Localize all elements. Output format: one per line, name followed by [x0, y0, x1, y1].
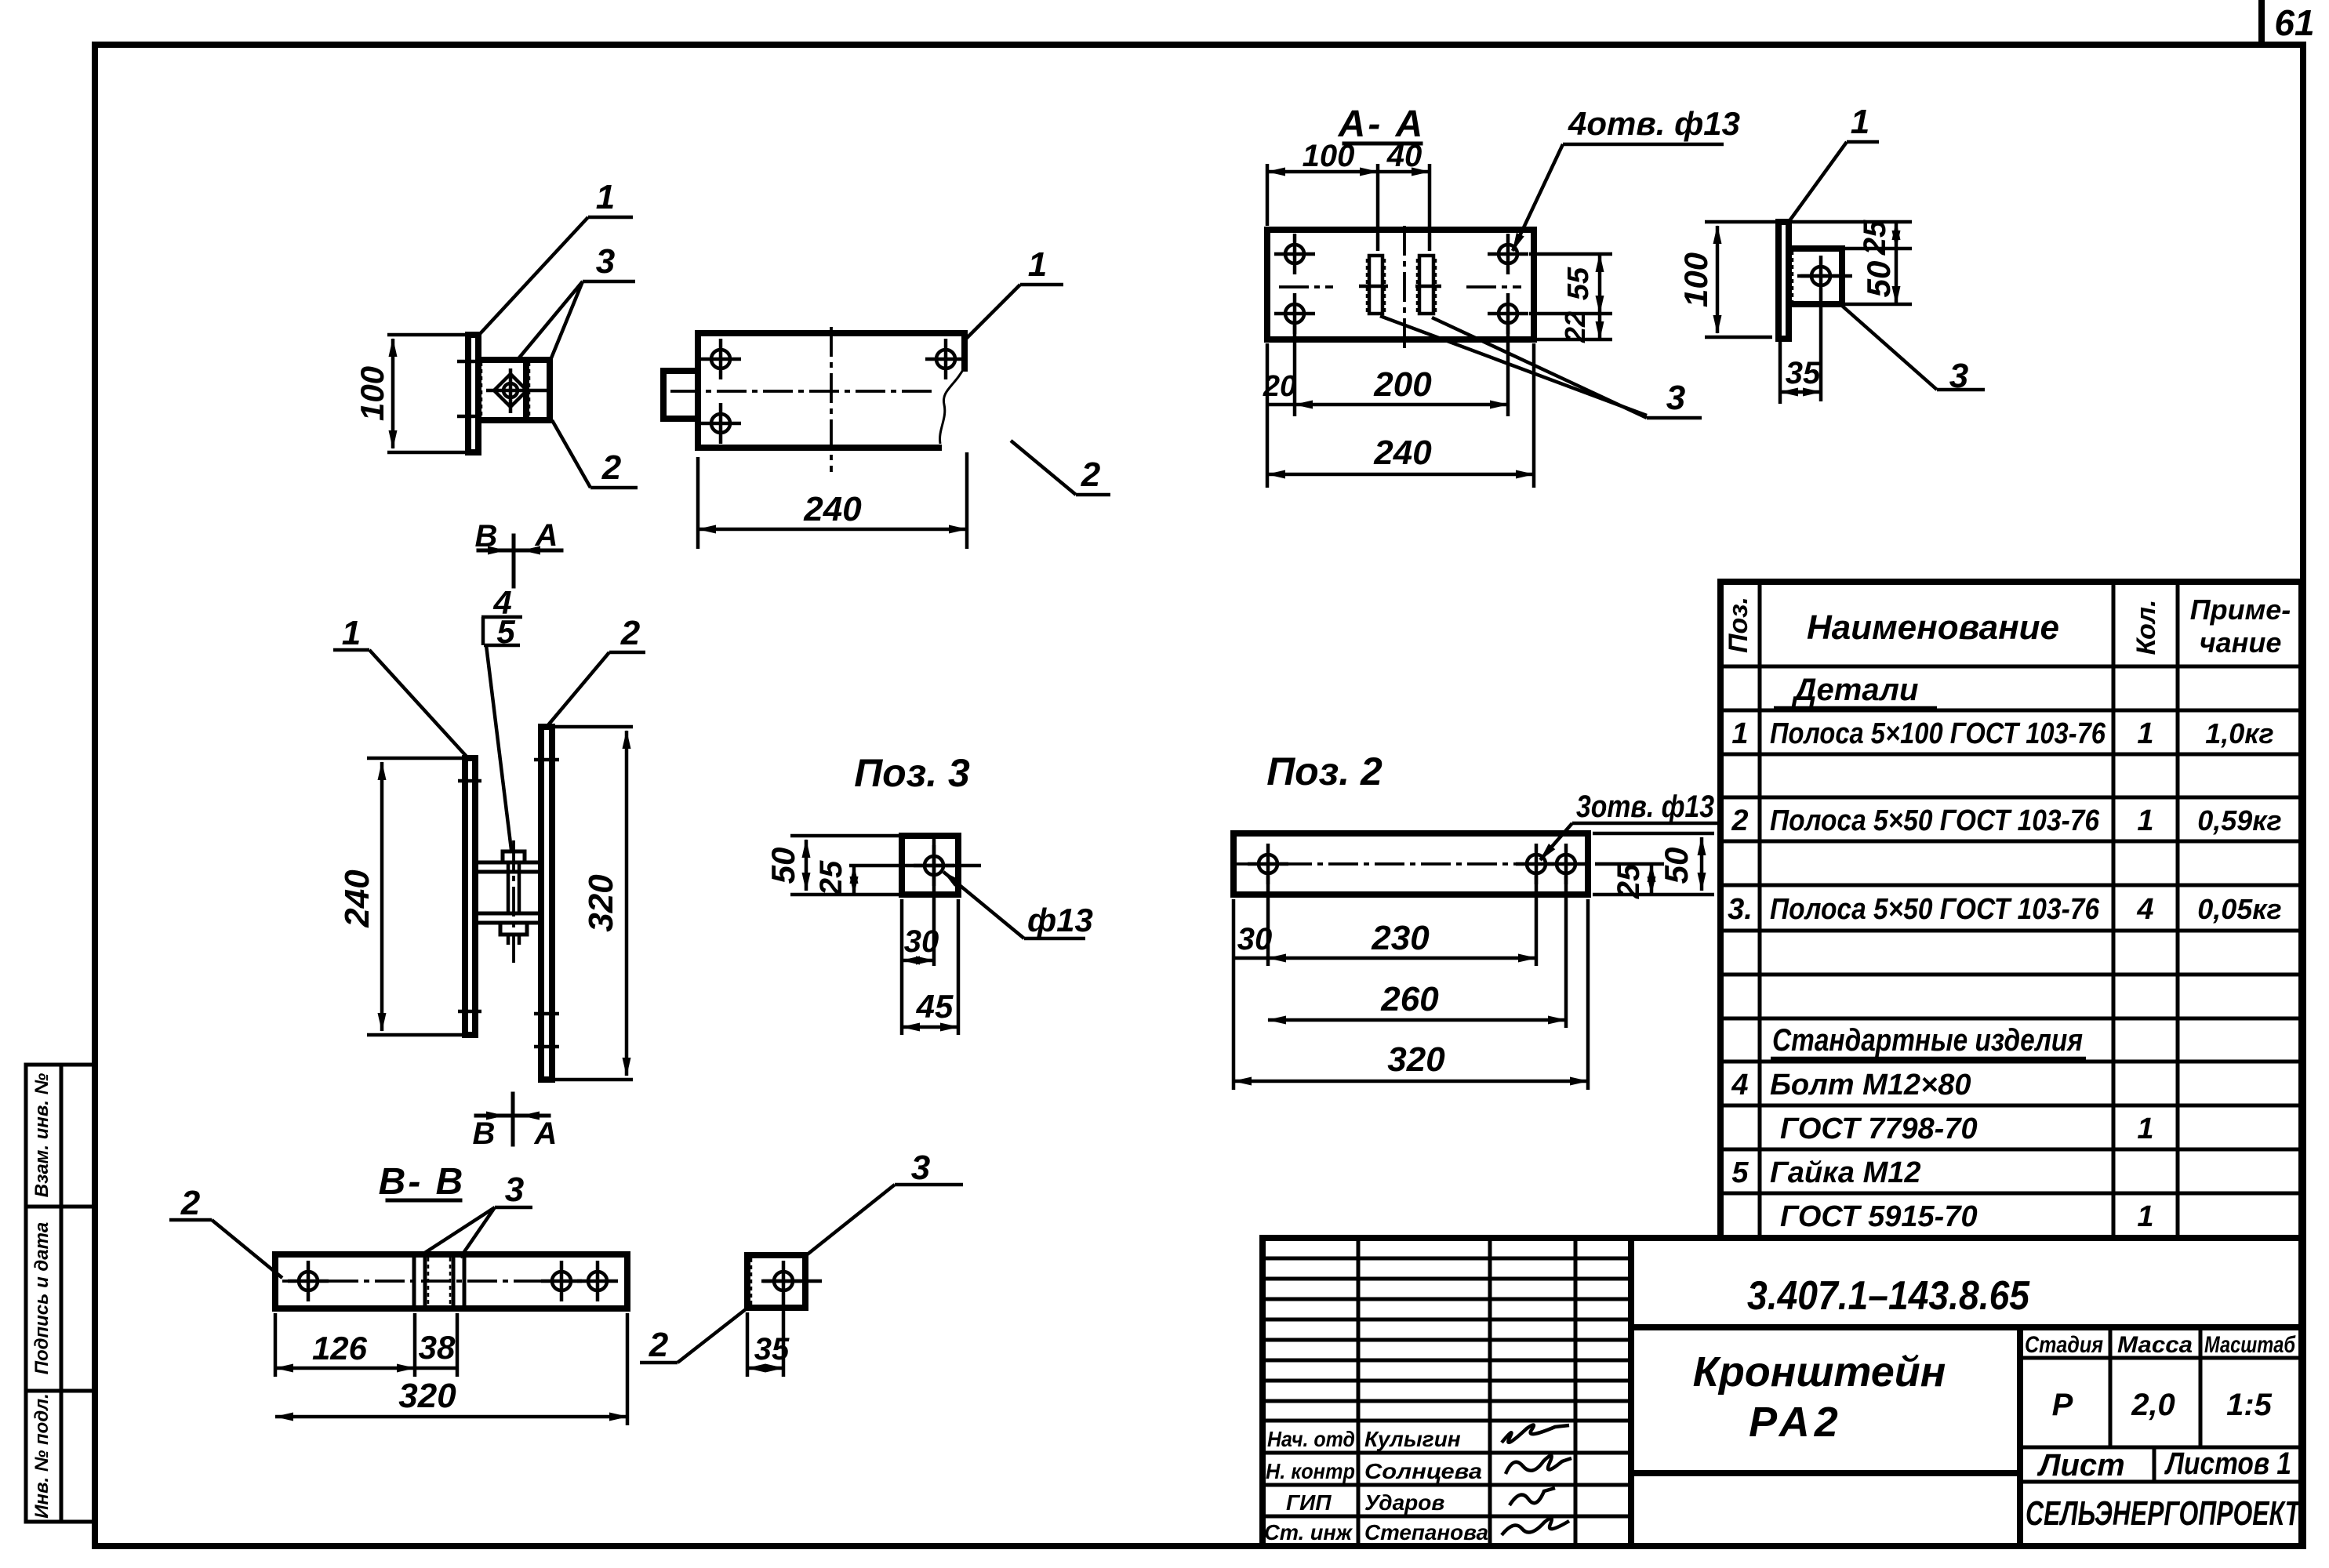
svg-text:Масса: Масса [2117, 1332, 2193, 1358]
svg-text:50: 50 [765, 848, 801, 884]
bottom dims [1232, 899, 1236, 1090]
svg-text:1: 1 [1028, 245, 1047, 284]
top dims [1266, 164, 1270, 226]
svg-text:50: 50 [1658, 848, 1695, 884]
svg-text:22: 22 [1559, 311, 1591, 343]
svg-text:126: 126 [312, 1330, 368, 1367]
svg-text:Стадия: Стадия [2025, 1332, 2103, 1358]
svg-text:4отв. ф13: 4отв. ф13 [1568, 105, 1740, 142]
svg-text:Стандартные изделия: Стандартные изделия [1772, 1023, 2083, 1058]
dims 25 50 [1792, 220, 1912, 224]
dim 35 [746, 1312, 750, 1377]
centerlines [670, 390, 937, 393]
svg-text:Кол.: Кол. [2131, 600, 2161, 655]
svg-text:Поз. 3: Поз. 3 [854, 751, 970, 795]
svg-text:25: 25 [814, 860, 848, 896]
svg-text:200: 200 [1373, 365, 1432, 404]
svg-text:2: 2 [1731, 804, 1748, 837]
spacer strips [475, 862, 542, 872]
svg-text:35: 35 [1786, 356, 1821, 390]
svg-text:Приме-: Приме- [2190, 593, 2291, 626]
bolt head protrusion [663, 371, 698, 419]
name box [2017, 1327, 2023, 1546]
svg-text:1: 1 [2137, 717, 2153, 750]
svg-text:В: В [475, 519, 498, 554]
svg-text:В- В: В- В [379, 1161, 466, 1203]
svg-text:СЕЛЬЭНЕРГОПРОЕКТ: СЕЛЬЭНЕРГОПРОЕКТ [2026, 1494, 2302, 1533]
svg-text:3: 3 [596, 242, 615, 281]
svg-text:ГОСТ 7798-70: ГОСТ 7798-70 [1780, 1112, 1978, 1145]
svg-text:РА2: РА2 [1749, 1399, 1843, 1446]
dim 100 line [391, 339, 395, 448]
svg-text:А: А [534, 1116, 558, 1151]
bracket square [1789, 249, 1842, 304]
sheet row [2020, 1480, 2302, 1484]
svg-text:5: 5 [1731, 1156, 1749, 1189]
svg-text:ф13: ф13 [1027, 902, 1093, 938]
svg-text:2: 2 [649, 1326, 669, 1364]
slots (pos 3 strips in section) [1369, 256, 1383, 314]
stage/mass/scale [2020, 1356, 2302, 1360]
bottom dims 20 200 240 [1293, 323, 1297, 416]
svg-text:320: 320 [1387, 1040, 1445, 1079]
left signature grid [1357, 1238, 1361, 1546]
svg-text:1: 1 [2137, 1112, 2153, 1145]
plate edge [1779, 222, 1789, 339]
svg-text:50: 50 [1860, 261, 1897, 298]
svg-text:Солнцева: Солнцева [1364, 1459, 1482, 1483]
svg-text:Лист: Лист [2037, 1448, 2125, 1483]
svg-text:260: 260 [1380, 980, 1439, 1018]
svg-text:3: 3 [505, 1171, 524, 1209]
svg-text:3отв. ф13: 3отв. ф13 [1576, 789, 1714, 824]
svg-text:100: 100 [1677, 252, 1714, 307]
dim 100 [1705, 220, 1779, 224]
dim 320 [626, 1313, 630, 1425]
leader 2 [1011, 441, 1076, 495]
svg-text:1: 1 [2137, 804, 2153, 837]
svg-text:Взам. инв. №: Взам. инв. № [31, 1073, 53, 1197]
holes [1274, 234, 1315, 274]
signatures [1502, 1425, 1569, 1443]
dim 25 [852, 866, 856, 895]
svg-text:3: 3 [911, 1149, 930, 1187]
bracket piece pos2+pos3 [478, 360, 550, 420]
svg-text:4: 4 [1731, 1069, 1748, 1102]
svg-text:25: 25 [1858, 220, 1892, 256]
svg-text:240: 240 [338, 869, 376, 928]
svg-text:Полоса 5×50 ГОСТ 103-76: Полоса 5×50 ГОСТ 103-76 [1770, 893, 2100, 926]
svg-text:Поз.: Поз. [1724, 597, 1753, 653]
svg-text:2: 2 [620, 614, 641, 652]
centerlines [1403, 226, 1406, 354]
leader 2 [552, 420, 590, 488]
left margin stamp boxes [26, 1065, 95, 1522]
pos3 small square [747, 1255, 805, 1308]
bolt diamond [494, 374, 527, 407]
right plate [541, 727, 552, 1080]
svg-text:Ст. инж: Ст. инж [1264, 1520, 1353, 1544]
svg-text:3: 3 [1949, 357, 1968, 395]
svg-text:Полоса 5×50 ГОСТ 103-76: Полоса 5×50 ГОСТ 103-76 [1770, 804, 2100, 837]
svg-text:Нач. отд: Нач. отд [1267, 1427, 1355, 1451]
svg-text:45: 45 [916, 988, 954, 1025]
plate outline with break [698, 333, 965, 368]
svg-text:1,0кг: 1,0кг [2205, 717, 2274, 750]
svg-text:100: 100 [1303, 139, 1355, 173]
svg-text:1: 1 [1851, 103, 1869, 141]
dim 30 [900, 899, 904, 969]
svg-text:Поз. 2: Поз. 2 [1266, 750, 1383, 793]
svg-text:240: 240 [803, 490, 862, 528]
svg-text:1: 1 [1731, 717, 1748, 750]
dim 320 [554, 725, 633, 729]
sheet number box 61 [2258, 0, 2265, 45]
svg-text:Н. контр: Н. контр [1266, 1459, 1355, 1483]
svg-text:Кулыгин: Кулыгин [1364, 1427, 1461, 1451]
left plate [465, 758, 475, 1035]
svg-text:Листов 1: Листов 1 [2164, 1446, 2291, 1481]
right dims 55 22 [1529, 252, 1612, 256]
svg-text:320: 320 [582, 874, 620, 932]
svg-text:3.407.1–143.8.65: 3.407.1–143.8.65 [1747, 1273, 2030, 1319]
svg-text:1: 1 [2137, 1200, 2153, 1233]
svg-text:Наименование: Наименование [1807, 608, 2059, 647]
svg-text:2: 2 [180, 1184, 201, 1222]
dim 45 [900, 969, 904, 1035]
svg-text:ГИП: ГИП [1286, 1490, 1332, 1515]
dim 100 ext lines [387, 333, 476, 337]
svg-text:240: 240 [1373, 434, 1432, 472]
svg-text:100: 100 [354, 366, 391, 421]
holes [700, 339, 741, 379]
svg-text:0,05кг: 0,05кг [2197, 893, 2282, 925]
svg-text:чание: чание [2200, 626, 2282, 659]
svg-text:35: 35 [754, 1332, 790, 1367]
svg-text:4: 4 [2136, 893, 2153, 926]
svg-text:320: 320 [398, 1377, 456, 1415]
svg-text:30: 30 [1237, 922, 1273, 956]
svg-text:2: 2 [1081, 456, 1101, 494]
leader 1 [965, 285, 1020, 339]
svg-text:Р: Р [2052, 1388, 2073, 1422]
svg-text:2: 2 [601, 448, 622, 487]
svg-text:1:5: 1:5 [2226, 1388, 2273, 1422]
svg-text:Степанова: Степанова [1364, 1520, 1488, 1544]
hole [1800, 256, 1841, 296]
dim 240 [367, 757, 463, 760]
svg-text:Подпись и дата: Подпись и дата [31, 1222, 53, 1375]
svg-text:ГОСТ 5915-70: ГОСТ 5915-70 [1780, 1200, 1978, 1233]
welded strips pos3 [414, 1254, 425, 1308]
svg-text:0,59кг: 0,59кг [2197, 804, 2282, 837]
svg-text:Болт М12×80: Болт М12×80 [1770, 1069, 1971, 1102]
dim 240 [696, 457, 700, 549]
attach ticks [457, 360, 481, 364]
dims 126 38 [274, 1313, 278, 1377]
svg-text:Масштаб: Масштаб [2204, 1332, 2296, 1358]
leader 3 [1380, 316, 1647, 416]
designation row [1628, 1238, 1634, 1546]
svg-text:Ударов: Ударов [1364, 1490, 1444, 1515]
leader 1 [1789, 142, 1847, 222]
leader 3 [517, 281, 583, 361]
dim 35 [1779, 342, 1782, 404]
svg-text:1: 1 [342, 614, 361, 652]
svg-text:Полоса 5×100 ГОСТ 103-76: Полоса 5×100 ГОСТ 103-76 [1770, 717, 2106, 750]
svg-text:230: 230 [1371, 919, 1430, 957]
plate [1267, 230, 1534, 339]
svg-text:Гайка М12: Гайка М12 [1770, 1156, 1921, 1189]
bolt [507, 862, 510, 913]
section mark bottom [511, 1094, 515, 1145]
leader 1 [478, 217, 588, 336]
svg-text:38: 38 [419, 1329, 456, 1366]
leader 3 [1842, 306, 1937, 390]
svg-text:61: 61 [2274, 2, 2314, 43]
svg-text:40: 40 [1386, 139, 1422, 173]
section mark top [512, 535, 516, 586]
svg-text:2,0: 2,0 [2131, 1388, 2175, 1422]
plate 1 edge view [468, 335, 478, 452]
strip pos2 [275, 1254, 627, 1308]
right dims 25 50 [1593, 832, 1714, 836]
dim 50 [790, 834, 899, 838]
svg-text:А: А [535, 518, 558, 553]
svg-text:30: 30 [904, 924, 939, 959]
svg-text:20: 20 [1263, 370, 1296, 403]
svg-text:Кронштейн: Кронштейн [1693, 1348, 1946, 1396]
svg-text:3: 3 [1666, 379, 1685, 417]
svg-text:3.: 3. [1728, 893, 1753, 926]
svg-text:55: 55 [1562, 267, 1595, 300]
svg-text:1: 1 [596, 178, 615, 216]
svg-text:25: 25 [1611, 863, 1646, 899]
svg-text:Детали: Детали [1792, 673, 1919, 707]
svg-text:В: В [473, 1116, 496, 1151]
svg-text:Инв. № подл.: Инв. № подл. [31, 1393, 53, 1519]
